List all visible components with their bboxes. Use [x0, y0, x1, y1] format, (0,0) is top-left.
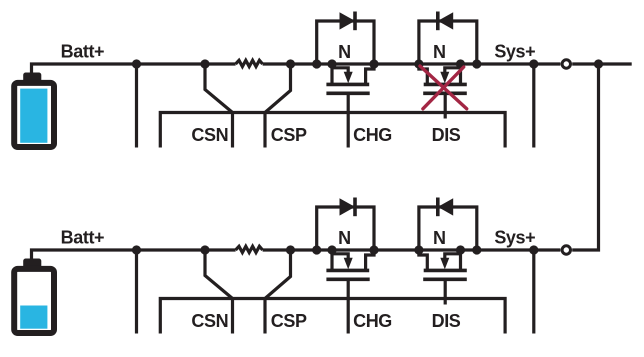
- svg-text:N: N: [338, 228, 351, 248]
- wire shared Sys+ bus joining both packs (right side): [572, 64, 598, 250]
- wire Batt+ rail from battery to resistor: [32, 64, 236, 76]
- diode D3 (body diode of Q3): [317, 198, 374, 251]
- wire rail from resistor to Sys+ connector: [263, 62, 561, 65]
- IC U1 pin header line with end stubs: [160, 113, 505, 148]
- svg-text:CSP: CSP: [271, 125, 307, 145]
- svg-text:CSN: CSN: [191, 311, 228, 331]
- wire Batt+ rail from battery to resistor: [32, 250, 236, 262]
- svg-text:N: N: [433, 228, 446, 248]
- wire stub from rail down (pack- sense): [135, 64, 138, 148]
- diode D4 (body diode of Q4): [419, 198, 477, 251]
- svg-text:Batt+: Batt+: [61, 227, 105, 247]
- pin CSP stub: [263, 299, 266, 334]
- battery B1 (full): [14, 73, 54, 148]
- wire Sys+ rail after connector J1, to output: [572, 62, 632, 65]
- diode D1 (body diode of Q1): [317, 12, 374, 65]
- connector J1 (open-circle terminal on Sys+ rail): [562, 60, 570, 68]
- pin CSN stub: [231, 113, 234, 148]
- wire stub from Sys+ node down: [532, 64, 535, 148]
- pin CSP stub: [263, 113, 266, 148]
- wire rail from resistor to Sys+ connector: [263, 248, 561, 251]
- wire from rail left node down to CSN pin: [205, 250, 233, 299]
- disabled mark: red X over Q2 (DIS FET blocked): [420, 66, 467, 109]
- battery B2 (partially discharged): [14, 259, 54, 334]
- wire from rail left node down to CSN pin: [205, 64, 233, 113]
- wire from rail right node down to CSP pin: [265, 250, 291, 299]
- IC U2 pin header line with end stubs: [160, 299, 505, 334]
- resistor R1 (current sense): [236, 60, 263, 66]
- svg-text:CHG: CHG: [353, 125, 392, 145]
- svg-text:Sys+: Sys+: [494, 227, 535, 247]
- svg-text:Sys+: Sys+: [494, 41, 535, 61]
- svg-text:DIS: DIS: [432, 311, 461, 331]
- resistor R2 (current sense): [236, 246, 263, 252]
- svg-text:CSP: CSP: [271, 311, 307, 331]
- transistor Q4 (DIS N-FET): [419, 250, 467, 305]
- wire stub from rail down (pack- sense): [135, 250, 138, 334]
- transistor Q1 (CHG N-FET): [326, 64, 374, 148]
- transistor Q3 (CHG N-FET): [326, 250, 374, 334]
- connector J2 (open-circle terminal on Sys+ rail): [562, 246, 570, 254]
- wire stub from Sys+ node down: [532, 250, 535, 334]
- wire from rail right node down to CSP pin: [265, 64, 291, 113]
- svg-text:N: N: [338, 42, 351, 62]
- node junction dot on shared Sys+ bus: [594, 59, 603, 68]
- svg-text:CSN: CSN: [191, 125, 228, 145]
- node junction dots on Batt+/Sys+ rail: [132, 245, 539, 254]
- node junction dots on Batt+/Sys+ rail: [132, 59, 539, 68]
- svg-text:N: N: [433, 42, 446, 62]
- svg-text:CHG: CHG: [353, 311, 392, 331]
- transistor Q2 (DIS N-FET): [419, 64, 467, 119]
- svg-text:Batt+: Batt+: [61, 41, 105, 61]
- svg-text:DIS: DIS: [432, 125, 461, 145]
- pin CSN stub: [231, 299, 234, 334]
- diode D2 (body diode of Q2): [419, 12, 477, 65]
